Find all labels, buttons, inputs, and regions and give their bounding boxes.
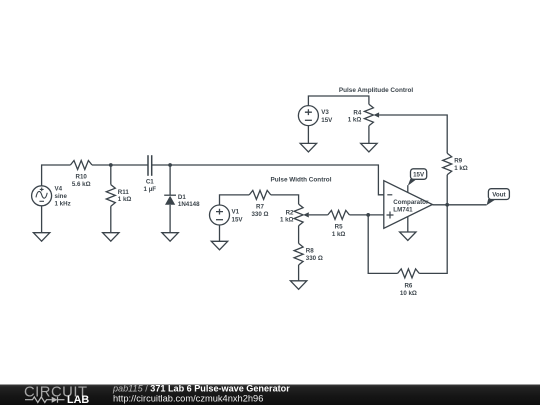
wire V4 top to R10 [42, 165, 71, 186]
node C [366, 213, 370, 217]
svg-text:1 kΩ: 1 kΩ [280, 217, 294, 224]
resistor R11 [106, 185, 115, 207]
label R7 [251, 203, 268, 217]
label R2 [280, 209, 294, 223]
label V1 [232, 209, 244, 224]
voltage source V3 [298, 106, 318, 126]
svg-text:R6: R6 [404, 282, 412, 289]
svg-text:Vout: Vout [492, 191, 505, 198]
svg-text:1 kΩ: 1 kΩ [332, 231, 346, 238]
wire R2 to R8 [298, 226, 300, 244]
svg-text:http://circuitlab.com/czmuk4nx: http://circuitlab.com/czmuk4nxh2h96 [113, 393, 263, 403]
svg-text:LM741: LM741 [393, 207, 413, 214]
svg-text:1 µF: 1 µF [144, 186, 157, 193]
svg-text:15V: 15V [321, 117, 333, 124]
svg-text:330 Ω: 330 Ω [251, 211, 268, 218]
wire C1 to node B [152, 164, 170, 166]
wire V4 bottom [41, 206, 43, 233]
label R5 [332, 223, 346, 237]
wire R11 bottom [110, 206, 112, 233]
svg-text:D1: D1 [178, 194, 186, 201]
svg-text:C1: C1 [146, 178, 154, 185]
ground under V4 [33, 233, 49, 242]
footer bar [0, 383, 540, 406]
label R4 [348, 109, 362, 123]
wire R8 bottom [298, 265, 300, 281]
wire node A to C1 [111, 164, 148, 166]
wire R5 to node C [349, 214, 383, 216]
svg-text:15V: 15V [413, 171, 425, 178]
resistor R6 [398, 269, 420, 278]
svg-text:15V: 15V [232, 216, 244, 223]
wire V1 bottom [219, 225, 221, 241]
svg-text:5.6 kΩ: 5.6 kΩ [72, 181, 91, 188]
label R8 [306, 248, 323, 262]
wire R4 bottom [368, 126, 370, 144]
wire node A down to R11 [110, 165, 112, 185]
resistor R9 [443, 153, 452, 175]
wire op-amp output to node D [432, 204, 486, 206]
voltage source V1 [210, 205, 230, 225]
title Pulse Width Control [270, 177, 331, 184]
svg-text:V4: V4 [55, 186, 63, 193]
wire R10 to node A [92, 164, 111, 166]
node D [445, 203, 449, 207]
wire R4 wiper to R9 top [379, 115, 447, 153]
wire R2 wiper to R5 [309, 214, 328, 216]
node A [109, 163, 113, 167]
label D1 [178, 194, 200, 208]
logo resistor-diode glyph [25, 397, 65, 403]
wire V3 bottom [307, 126, 309, 144]
op-amp U1 LM741 [384, 181, 433, 232]
svg-text:1N4148: 1N4148 [178, 201, 200, 208]
wire R9 bottom to node D [446, 175, 448, 205]
svg-text:R2: R2 [286, 209, 294, 216]
svg-text:sine: sine [55, 193, 68, 200]
svg-text:1 kΩ: 1 kΩ [454, 165, 468, 172]
wire node B to op-amp inverting input [170, 165, 384, 195]
flag Vout [487, 189, 510, 206]
svg-text:LAB: LAB [67, 394, 89, 405]
svg-text:V1: V1 [232, 209, 240, 216]
ground under R4 [361, 143, 377, 152]
svg-text:R8: R8 [306, 248, 314, 255]
svg-text:R10: R10 [76, 174, 88, 181]
ground under R11 [103, 233, 119, 242]
ground under V1 [211, 241, 227, 250]
title Pulse Amplitude Control [339, 87, 414, 94]
svg-text:Comparator: Comparator [393, 199, 429, 206]
label R10 [72, 174, 91, 188]
capacitor C1 [148, 155, 152, 176]
wire node B down to D1 [169, 165, 171, 195]
resistor R7 [249, 190, 271, 199]
svg-text:V3: V3 [321, 109, 329, 116]
ground under op-amp [400, 232, 416, 241]
svg-text:R4: R4 [353, 109, 361, 116]
wire V1 top to R7 [220, 195, 250, 205]
svg-text:1 kHz: 1 kHz [55, 201, 71, 208]
potentiometer R2 [294, 204, 309, 226]
svg-text:1 kΩ: 1 kΩ [348, 117, 362, 124]
label V3 [321, 109, 333, 124]
flag 15V on op-amp V+ [408, 169, 427, 186]
svg-text:330 Ω: 330 Ω [306, 255, 323, 262]
svg-text:R7: R7 [256, 203, 264, 210]
label R9 [454, 158, 468, 172]
label C1 [144, 178, 157, 192]
svg-text:Pulse Width Control: Pulse Width Control [270, 177, 331, 184]
diode D1 [164, 195, 176, 205]
svg-text:R5: R5 [335, 223, 343, 230]
svg-text:Pulse Amplitude Control: Pulse Amplitude Control [339, 87, 414, 94]
wire V3 top to R4 top [308, 96, 369, 106]
svg-text:R11: R11 [118, 189, 130, 196]
node B [168, 163, 172, 167]
svg-text:10 kΩ: 10 kΩ [400, 290, 417, 297]
resistor R10 [70, 161, 92, 170]
label Comparator LM741 [393, 199, 429, 214]
ground under V3 [300, 143, 316, 152]
wire node D down to R6 (feedback) [419, 205, 447, 274]
ground under R8 [290, 281, 306, 290]
resistor R8 [294, 243, 303, 265]
svg-text:1 kΩ: 1 kΩ [118, 196, 132, 203]
wire R6 to node C (feedback) [368, 215, 397, 274]
wire R7 to R2 top [271, 195, 299, 204]
potentiometer R4 [364, 104, 379, 126]
label R11 [118, 189, 132, 203]
label R6 [400, 282, 417, 297]
resistor R5 [328, 210, 350, 219]
wire D1 bottom [169, 205, 171, 233]
svg-text:pab115 / 371 Lab 6 Pulse-wave: pab115 / 371 Lab 6 Pulse-wave Generator [112, 383, 290, 393]
label V4 [55, 186, 71, 208]
voltage source V4 [32, 186, 52, 206]
svg-text:R9: R9 [454, 158, 462, 165]
ground under D1 [162, 233, 178, 242]
